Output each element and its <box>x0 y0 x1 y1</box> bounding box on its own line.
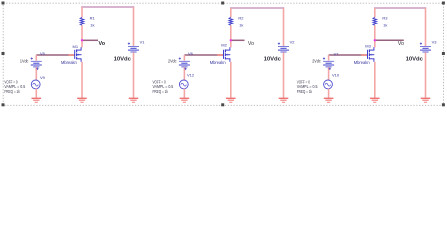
svg-text:V10: V10 <box>332 73 340 78</box>
svg-text:V6: V6 <box>188 51 194 56</box>
svg-text:Vo: Vo <box>99 41 106 47</box>
svg-text:V9: V9 <box>40 75 46 80</box>
svg-text:R3: R3 <box>382 15 388 20</box>
svg-text:R2: R2 <box>238 15 244 20</box>
svg-text:FREQ = 1k: FREQ = 1k <box>297 89 313 94</box>
svg-text:V7: V7 <box>334 51 340 56</box>
svg-text:M3: M3 <box>365 43 371 48</box>
svg-text:1k: 1k <box>90 22 94 27</box>
svg-text:V1: V1 <box>140 39 146 44</box>
svg-text:V3: V3 <box>432 39 438 44</box>
svg-text:Vo: Vo <box>248 41 254 47</box>
svg-text:2Vdc: 2Vdc <box>312 59 321 64</box>
svg-text:10Vdc: 10Vdc <box>406 57 423 63</box>
svg-text:FREQ = 1k: FREQ = 1k <box>4 89 20 94</box>
svg-text:M2: M2 <box>221 43 227 48</box>
svg-text:M1: M1 <box>73 44 79 49</box>
svg-text:2Vdc: 2Vdc <box>168 59 177 64</box>
svg-text:FREQ = 1k: FREQ = 1k <box>153 89 169 94</box>
svg-text:1k: 1k <box>239 22 243 27</box>
svg-text:1Vdc: 1Vdc <box>20 59 29 64</box>
svg-text:R1: R1 <box>90 15 96 20</box>
svg-text:V5: V5 <box>40 51 46 56</box>
svg-text:10Vdc: 10Vdc <box>114 57 131 63</box>
svg-text:1k: 1k <box>383 22 387 27</box>
svg-text:Mbreakn: Mbreakn <box>210 60 226 65</box>
svg-text:Mbreakn: Mbreakn <box>354 60 370 65</box>
svg-text:Mbreakn: Mbreakn <box>61 60 77 65</box>
svg-text:V2: V2 <box>290 39 296 44</box>
svg-text:V12: V12 <box>187 72 195 77</box>
svg-text:10Vdc: 10Vdc <box>264 57 281 63</box>
svg-text:Vo: Vo <box>398 41 404 47</box>
